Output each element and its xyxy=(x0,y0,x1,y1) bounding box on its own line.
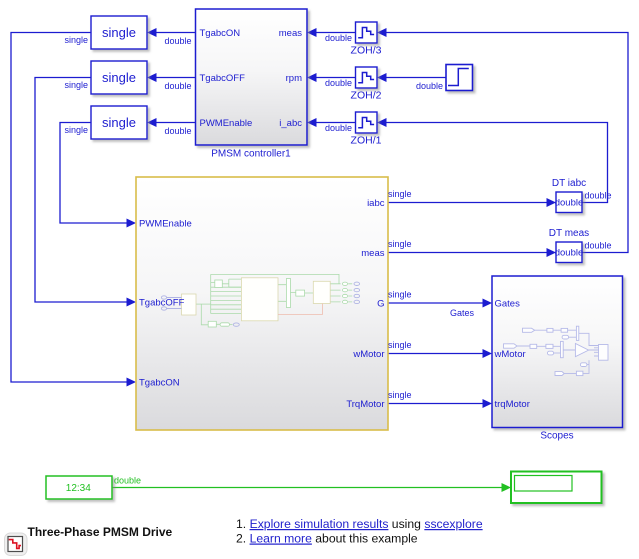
svg-text:12:34: 12:34 xyxy=(66,483,91,494)
svg-text:double: double xyxy=(165,126,192,136)
svg-text:double: double xyxy=(165,81,192,91)
svg-text:single: single xyxy=(388,390,412,400)
svg-text:single: single xyxy=(102,25,136,40)
svg-text:TrqMotor: TrqMotor xyxy=(346,399,384,410)
svg-text:single: single xyxy=(64,125,88,135)
svg-text:wMotor: wMotor xyxy=(352,349,384,360)
svg-text:double: double xyxy=(555,198,584,209)
svg-text:single: single xyxy=(388,189,412,199)
svg-text:double: double xyxy=(325,123,352,133)
svg-text:ZOH/3: ZOH/3 xyxy=(351,45,382,57)
svg-text:single: single xyxy=(64,35,88,45)
svg-text:iabc: iabc xyxy=(367,198,385,209)
svg-text:TgabcOFF: TgabcOFF xyxy=(200,73,246,84)
svg-text:double: double xyxy=(325,78,352,88)
svg-text:1. Explore simulation results: 1. Explore simulation results using ssce… xyxy=(236,517,483,531)
svg-text:PMSM controller1: PMSM controller1 xyxy=(211,149,291,160)
svg-text:single: single xyxy=(102,70,136,85)
svg-text:double: double xyxy=(416,81,443,91)
svg-text:double: double xyxy=(555,248,584,259)
svg-text:PWMEnable: PWMEnable xyxy=(139,219,192,230)
svg-text:ZOH/1: ZOH/1 xyxy=(351,135,382,147)
svg-text:DT iabc: DT iabc xyxy=(552,178,586,189)
svg-text:single: single xyxy=(64,80,88,90)
svg-text:single: single xyxy=(388,290,412,300)
svg-text:i_abc: i_abc xyxy=(279,118,302,129)
svg-text:TgabcON: TgabcON xyxy=(139,378,180,389)
svg-text:double: double xyxy=(114,476,141,486)
svg-text:G: G xyxy=(377,299,384,310)
svg-text:trqMotor: trqMotor xyxy=(495,399,530,410)
svg-text:double: double xyxy=(325,33,352,43)
svg-text:double: double xyxy=(585,241,612,251)
svg-text:ZOH/2: ZOH/2 xyxy=(351,90,382,102)
svg-text:PWMEnable: PWMEnable xyxy=(200,118,253,129)
svg-text:meas: meas xyxy=(361,248,384,259)
svg-text:single: single xyxy=(102,115,136,130)
svg-text:meas: meas xyxy=(279,28,302,39)
svg-text:single: single xyxy=(388,239,412,249)
svg-text:single: single xyxy=(388,340,412,350)
svg-text:2. Learn more about this examp: 2. Learn more about this example xyxy=(236,532,418,546)
svg-text:double: double xyxy=(585,191,612,201)
svg-text:rpm: rpm xyxy=(286,73,302,84)
svg-text:Three-Phase PMSM Drive: Three-Phase PMSM Drive xyxy=(28,525,173,539)
svg-text:TgabcOFF: TgabcOFF xyxy=(139,298,185,309)
svg-text:DT meas: DT meas xyxy=(549,228,589,239)
svg-text:double: double xyxy=(165,36,192,46)
svg-text:Gates: Gates xyxy=(495,299,521,310)
svg-text:Gates: Gates xyxy=(450,308,475,318)
svg-text:Scopes: Scopes xyxy=(540,431,573,442)
svg-text:wMotor: wMotor xyxy=(494,349,526,360)
svg-text:TgabcON: TgabcON xyxy=(200,28,241,39)
